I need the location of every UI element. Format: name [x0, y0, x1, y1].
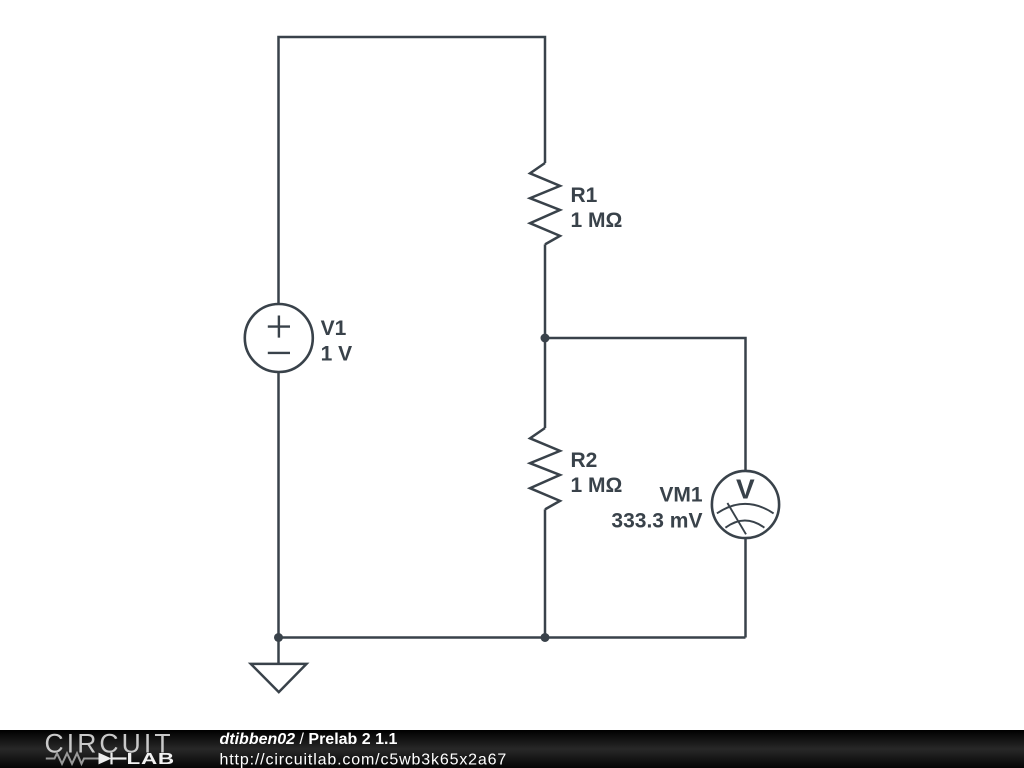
resistor R1 (zigzag body) — [530, 163, 560, 244]
V1 plus symbol — [268, 316, 290, 338]
footer bar background — [0, 730, 1024, 768]
wire: node A down to R2 pin 1 — [544, 338, 547, 428]
svg-text:1 V: 1 V — [321, 342, 353, 365]
svg-text:333.3 mV: 333.3 mV — [611, 509, 702, 532]
svg-text:R1: R1 — [571, 184, 598, 207]
wire: R2 pin 2 down to bottom net — [544, 509, 547, 637]
wire: R1 pin 2 down to node A — [544, 244, 547, 338]
wire: V1 plus terminal up, across top, down to R1 pin 1 — [279, 37, 546, 304]
svg-text:VM1: VM1 — [659, 483, 703, 506]
V1 minus symbol — [268, 352, 290, 354]
svg-text:1 MΩ: 1 MΩ — [571, 209, 623, 232]
ground symbol triangle — [251, 664, 307, 692]
VM1 meter needle — [727, 503, 746, 534]
VM1 meter scale arc (lower) — [725, 521, 764, 528]
wire: node A right and down to voltmeter VM1 top — [545, 338, 746, 471]
svg-text:LAB: LAB — [127, 751, 175, 768]
wire: VM1 bottom down to bottom net — [744, 539, 747, 638]
wire: V1 minus terminal down to bottom net — [277, 372, 280, 638]
VM1 meter scale arc (upper) — [717, 504, 774, 514]
voltmeter VM1 (circle body) — [712, 471, 779, 538]
svg-text:V1: V1 — [321, 317, 347, 340]
svg-text:dtibben02 / Prelab 2 1.1: dtibben02 / Prelab 2 1.1 — [220, 731, 398, 748]
ground symbol stem — [277, 638, 280, 664]
svg-text:R2: R2 — [571, 449, 598, 472]
wire: bottom horizontal net — [279, 636, 746, 639]
resistor R2 (zigzag body) — [530, 428, 560, 509]
svg-text:http://circuitlab.com/c5wb3k65: http://circuitlab.com/c5wb3k65x2a67 — [220, 751, 508, 768]
CircuitLab logo diode symbol — [99, 753, 112, 765]
node: junction dot at V1 / ground — [274, 633, 283, 642]
node A (junction dot between R1, R2, VM1) — [541, 334, 550, 343]
node: junction dot at R2 bottom — [541, 633, 550, 642]
voltage source V1 (circle body) — [245, 304, 313, 372]
svg-text:1 MΩ: 1 MΩ — [571, 474, 623, 497]
svg-text:V: V — [736, 473, 755, 504]
CircuitLab logo resistor zigzag wire — [46, 753, 99, 764]
